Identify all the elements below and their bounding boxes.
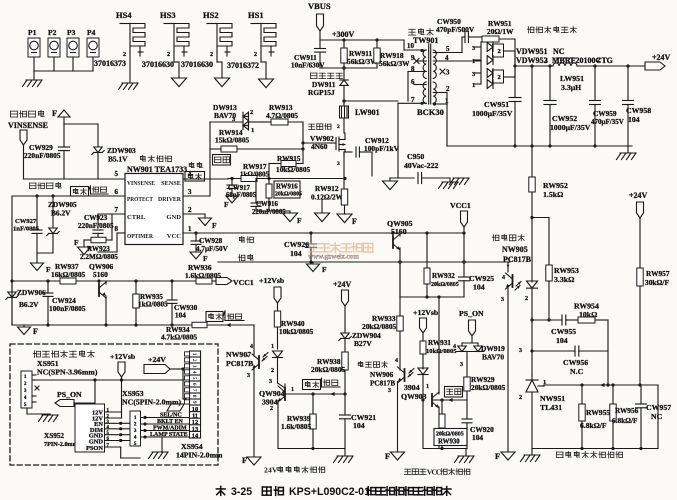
net +24V d (144, 355, 186, 399)
svg-text:5: 5 (115, 170, 119, 178)
capacitor CW912 (344, 136, 400, 168)
svg-text:HS4: HS4 (116, 10, 132, 20)
ground CW928 (190, 252, 208, 263)
capacitor CW927 (13, 194, 42, 253)
capacitor CW911 (291, 40, 326, 70)
wire pin8 (98, 233, 125, 252)
svg-text:1000μF/35V: 1000μF/35V (550, 123, 591, 132)
wire pin5 (24, 178, 126, 180)
ground HS3 (172, 78, 187, 87)
label mains sample 2 (30, 182, 62, 189)
capacitor CW930 (167, 281, 198, 325)
label NC slash (167, 404, 184, 411)
svg-text:NW906: NW906 (370, 371, 394, 379)
svg-text:2.2MΩ/0805: 2.2MΩ/0805 (80, 253, 118, 261)
svg-text:5: 5 (446, 45, 450, 53)
ground chassis XS954 (149, 437, 169, 459)
capacitor CW959 (590, 66, 624, 146)
svg-text:CW958: CW958 (626, 106, 651, 115)
svg-text:CW917: CW917 (228, 185, 251, 192)
wire snubber bus (320, 66, 377, 69)
svg-text:37016372: 37016372 (227, 61, 259, 70)
svg-text:1: 1 (545, 57, 548, 64)
svg-text:NC(SPN-3.96mm): NC(SPN-3.96mm) (37, 368, 98, 377)
svg-text:3.3μH: 3.3μH (561, 83, 581, 92)
svg-text:PC817B: PC817B (503, 255, 532, 264)
svg-text:2: 2 (250, 109, 253, 116)
svg-text:VDW951: VDW951 (516, 47, 548, 56)
svg-text:0.12Ω/2W: 0.12Ω/2W (311, 193, 344, 202)
svg-text:VCC1: VCC1 (233, 278, 254, 287)
label supply (239, 236, 253, 243)
svg-text:V: V (272, 466, 278, 475)
wire sb bus (36, 378, 186, 381)
svg-text:KPS+L090C2-01: KPS+L090C2-01 (289, 486, 370, 498)
resistor RW934 (161, 322, 207, 341)
ground chassis secondary (617, 146, 637, 160)
svg-text:CW956: CW956 (563, 358, 588, 367)
label protect2 (206, 311, 225, 322)
ground chassis P1 (23, 80, 43, 87)
svg-text:8: 8 (191, 395, 197, 398)
svg-text:1: 1 (188, 225, 192, 233)
resistor RW954 (574, 302, 608, 386)
svg-text:37016630: 37016630 (181, 60, 213, 69)
ground chassis mid (450, 178, 470, 185)
svg-text:4.7kΩ/0805: 4.7kΩ/0805 (161, 333, 197, 342)
connector P1 (28, 28, 40, 71)
svg-text:4: 4 (250, 344, 253, 350)
wire aux (344, 100, 398, 102)
pin 1 (188, 225, 192, 233)
svg-text:2: 2 (498, 74, 501, 81)
pin 3 (188, 188, 192, 196)
svg-text:3: 3 (446, 69, 450, 77)
svg-text:OPTIMER: OPTIMER (127, 233, 153, 240)
svg-text:+24V: +24V (333, 280, 352, 289)
capacitor CW956 (563, 346, 608, 376)
svg-text:CW955: CW955 (551, 327, 576, 336)
wire VW902 source (337, 152, 344, 188)
svg-text:RW953: RW953 (554, 266, 579, 275)
svg-text:F: F (352, 217, 357, 226)
svg-text:6.8kΩ/F: 6.8kΩ/F (580, 421, 607, 430)
svg-text:VDW952: VDW952 (516, 56, 548, 65)
svg-text:F: F (385, 451, 390, 461)
svg-text:2: 2 (167, 52, 170, 58)
wire HS4 down (129, 52, 131, 82)
svg-text:PSON: PSON (86, 445, 103, 452)
connector XS953 sym (130, 411, 141, 447)
svg-text:2: 2 (107, 415, 110, 420)
label 37016630 b (181, 60, 213, 69)
svg-text:37016630: 37016630 (142, 60, 174, 69)
label protect pin4 (185, 172, 205, 182)
capacitor CW950 (436, 17, 482, 43)
label BKLT EN (157, 419, 184, 425)
svg-text:RW916: RW916 (276, 184, 298, 191)
wire dw919 down (460, 358, 467, 377)
pin 4 (188, 170, 192, 178)
capacitor CW923 (78, 214, 114, 237)
svg-text:8: 8 (115, 225, 119, 233)
label SEL NC (160, 413, 182, 419)
ground chassis XS951 (27, 414, 58, 422)
diode VDW951 b (472, 44, 515, 65)
svg-text:5: 5 (107, 431, 110, 436)
svg-text:1: 1 (191, 353, 197, 356)
svg-text:220nF/0805: 220nF/0805 (252, 209, 286, 216)
svg-text:VCC1: VCC1 (450, 201, 471, 210)
connector P4 (87, 28, 99, 71)
wire +300V rail (320, 30, 404, 42)
svg-text:470pF/500V: 470pF/500V (436, 25, 475, 34)
svg-text:C950: C950 (407, 152, 424, 161)
ground regulation (307, 262, 328, 274)
svg-text:+12Vsb: +12Vsb (259, 276, 285, 285)
resistor RW951 (482, 19, 515, 66)
svg-text:F: F (224, 200, 229, 209)
svg-text:www.gzweix.com: www.gzweix.com (308, 253, 359, 261)
optocoupler NW906 (370, 357, 428, 452)
capacitor CW958 (623, 66, 652, 146)
svg-text:3-25: 3-25 (231, 486, 252, 498)
svg-text:104: 104 (472, 433, 483, 442)
label VDW952 (516, 56, 613, 65)
resistor RW956 (610, 385, 639, 449)
transformer pin 9 (411, 54, 426, 64)
heatsink HS3 (160, 10, 189, 58)
svg-text:4: 4 (453, 344, 456, 350)
pin 5 (115, 170, 119, 178)
svg-text:1nF/0805: 1nF/0805 (13, 226, 40, 233)
svg-text:RW930: RW930 (438, 439, 460, 446)
svg-text:1.6k/0805: 1.6k/0805 (281, 422, 311, 431)
resistor RW916 (266, 179, 302, 212)
svg-text:1: 1 (426, 384, 429, 390)
pin 6 (115, 188, 119, 196)
capacitor CW952 (544, 66, 591, 146)
svg-text:104: 104 (353, 421, 365, 430)
svg-text:2: 2 (446, 85, 450, 93)
svg-text:LW901: LW901 (355, 108, 380, 117)
label normal2 (225, 311, 244, 321)
transistor VW902 switch (308, 124, 345, 152)
ground F protect (18, 325, 39, 336)
capacitor CW951 (472, 66, 521, 146)
svg-text:VCC: VCC (167, 233, 182, 240)
label output connector (33, 350, 94, 357)
wire regulation bus (218, 260, 510, 263)
svg-text:PROTECT: PROTECT (127, 196, 153, 203)
label VDW951 (516, 47, 565, 56)
svg-text:PS_ON: PS_ON (459, 309, 484, 318)
svg-text:104: 104 (473, 283, 485, 292)
label protect3 (303, 380, 321, 390)
ground F NW906 (385, 451, 405, 461)
svg-text:30kΩ/F: 30kΩ/F (645, 278, 669, 287)
svg-text:3: 3 (472, 45, 476, 52)
resistor RW932 (424, 233, 459, 297)
wire HS1 down (261, 52, 266, 79)
label overcurrent (189, 162, 202, 167)
svg-text:3: 3 (107, 420, 110, 425)
ground chassis C950 (439, 178, 459, 189)
net +24V c (629, 191, 648, 268)
pin 2 (188, 206, 192, 214)
svg-text:NC(5PIN-2.0mm): NC(5PIN-2.0mm) (122, 398, 182, 407)
capacitor CW921 (340, 392, 377, 448)
svg-text:LW951: LW951 (560, 74, 584, 83)
ground C950 left (383, 178, 398, 190)
heatsink HS4 (116, 10, 145, 58)
svg-text:CW927: CW927 (15, 218, 37, 225)
diode VDW952 a (472, 61, 493, 84)
svg-text:+24V: +24V (652, 53, 671, 62)
inductor LW951 (545, 57, 600, 92)
diode DW913 (213, 103, 262, 134)
wire sense row (228, 177, 347, 180)
wire pin2 gnd (183, 214, 205, 218)
svg-text:BKLT EN: BKLT EN (157, 419, 184, 425)
resistor RW953 (530, 216, 579, 320)
svg-text:3.3kΩ: 3.3kΩ (554, 275, 574, 284)
net PS_ON b (459, 309, 484, 343)
wire CW912 gnd (371, 168, 373, 176)
label VCC control circuit (404, 468, 470, 477)
svg-text:+12Vsb: +12Vsb (110, 352, 136, 361)
svg-text:14PIN-2.0mm: 14PIN-2.0mm (176, 451, 223, 460)
svg-text:CW923: CW923 (84, 214, 108, 222)
wire left drive (209, 122, 211, 196)
transformer pin 1 (433, 97, 449, 146)
svg-text:F: F (242, 455, 247, 465)
svg-text:CW959: CW959 (593, 109, 617, 118)
resistor RW931 (420, 339, 457, 357)
ground chassis samp (521, 449, 541, 462)
svg-text:20kΩ/0805: 20kΩ/0805 (431, 282, 459, 288)
svg-text:SENSE: SENSE (161, 180, 182, 187)
svg-text:+24V: +24V (148, 355, 166, 364)
svg-text:3: 3 (460, 362, 463, 368)
svg-text:4: 4 (191, 371, 197, 374)
svg-text:104: 104 (556, 336, 568, 345)
svg-text:F: F (212, 221, 217, 230)
svg-text:+300V: +300V (332, 30, 355, 39)
resistor RW913 (262, 103, 303, 125)
wire lamp rows (141, 416, 190, 439)
svg-text:20kΩ/0805: 20kΩ/0805 (275, 192, 302, 198)
resistor RW933 (362, 262, 403, 366)
wire HS2 down (217, 52, 222, 78)
label normal (91, 186, 109, 194)
optocoupler NW907 (226, 344, 283, 457)
transformer pin 3 (440, 69, 450, 77)
transformer pin 2 (433, 85, 450, 104)
zener ZDW904 (339, 331, 381, 352)
wire pin7 (98, 214, 125, 228)
label sampling circuit (557, 451, 623, 458)
svg-text:15kΩ/0805: 15kΩ/0805 (215, 136, 250, 145)
svg-text:LAMP STATE: LAMP STATE (150, 432, 188, 438)
svg-text:BCK30: BCK30 (417, 107, 444, 117)
svg-text:1: 1 (472, 58, 475, 65)
svg-text:5160: 5160 (93, 270, 108, 279)
svg-text:2: 2 (519, 395, 522, 401)
ground chassis ovp (334, 449, 354, 463)
svg-text:NC: NC (553, 47, 565, 56)
wire ovp bottom (278, 447, 345, 450)
net VCC1 b (450, 201, 471, 233)
svg-text:PC817B: PC817B (226, 359, 253, 368)
zener ZDW906 (6, 281, 46, 325)
transformer pin 4 (433, 54, 481, 62)
svg-text:220nF/0805: 220nF/0805 (24, 151, 61, 160)
resistor RW923 (80, 214, 118, 261)
svg-text:10kΩ/0805: 10kΩ/0805 (279, 327, 314, 336)
svg-text:100nF/0805: 100nF/0805 (49, 304, 86, 313)
wire samp bottom (532, 447, 658, 450)
transistor QW903 (401, 297, 467, 449)
zener ZDW903 (92, 146, 136, 179)
svg-text:NC: NC (651, 412, 663, 421)
diode DW911 spike absorber (308, 68, 348, 101)
resistor RW938 (311, 352, 348, 394)
wire signal rows (105, 380, 141, 458)
svg-text:RW952: RW952 (543, 181, 568, 190)
svg-text:F: F (495, 451, 500, 461)
transformer pin 6 (411, 78, 426, 86)
svg-text:2: 2 (210, 52, 213, 58)
pin 7 (115, 206, 119, 214)
svg-text:2: 2 (188, 206, 192, 214)
wire F bus (64, 124, 98, 147)
svg-text:3: 3 (519, 348, 522, 354)
svg-text:1: 1 (291, 387, 294, 393)
capacitor CW955 (551, 315, 578, 345)
svg-text:220nF/0805: 220nF/0805 (78, 222, 114, 230)
transformer pin 5 (433, 37, 462, 53)
svg-text:7: 7 (191, 389, 197, 392)
svg-text:3: 3 (501, 297, 504, 303)
svg-text:3: 3 (337, 161, 340, 167)
capacitor CW926 (284, 233, 317, 262)
ground F NW907 (242, 455, 261, 465)
capacitor CW924 (43, 279, 86, 325)
svg-text:3: 3 (247, 373, 250, 379)
svg-text:40Vac-222: 40Vac-222 (404, 161, 438, 170)
transformer pin 8 (408, 65, 426, 101)
wire gate right (302, 122, 304, 163)
resistor RW930 (434, 400, 467, 449)
label rectifier filter (527, 26, 576, 33)
label normal3 (322, 378, 341, 387)
wire pin4 sense (183, 178, 228, 180)
diode DW919 (453, 343, 505, 362)
ground F zdw905 (31, 263, 52, 274)
op-amp U NW901 (125, 165, 187, 245)
svg-text:6: 6 (115, 188, 119, 196)
capacitor CW925 (459, 233, 495, 297)
wire HS3 down (174, 52, 179, 78)
svg-text:ZDW906: ZDW906 (17, 288, 46, 297)
label XS954 (176, 442, 223, 460)
svg-text:VINSENSE: VINSENSE (8, 121, 48, 130)
wire 24V rail (513, 64, 553, 67)
inductor LW901 (337, 99, 380, 133)
svg-text:P4: P4 (87, 28, 96, 37)
transformer pin 10 (404, 40, 426, 52)
capacitor CW917 (226, 179, 257, 200)
svg-text:CW957: CW957 (646, 403, 671, 412)
svg-text:B5.1V: B5.1V (108, 155, 128, 164)
svg-text:RW957: RW957 (646, 269, 670, 278)
svg-text:+24V: +24V (629, 191, 648, 200)
resistor RW911 (341, 40, 378, 68)
resistor RW935 (133, 281, 168, 325)
optocoupler NW905 (492, 192, 537, 452)
transistor QW904 (259, 379, 345, 449)
svg-text:P2: P2 (48, 28, 57, 37)
svg-text:VBUS: VBUS (308, 1, 331, 11)
svg-text:37016373: 37016373 (94, 59, 126, 68)
label 37016630 a (142, 60, 174, 69)
connector P2 (48, 28, 60, 71)
svg-text:2: 2 (525, 296, 528, 302)
transistor NW951 TL431 (519, 348, 565, 449)
svg-text:2: 2 (191, 359, 197, 362)
ground pin2 (199, 218, 218, 230)
resistor RW917 (240, 162, 269, 179)
wire pin3 driver (183, 195, 210, 197)
ground chassis vcc ctl (455, 449, 475, 463)
svg-text:20kΩ/0805: 20kΩ/0805 (311, 365, 346, 374)
svg-text:2: 2 (337, 124, 340, 130)
svg-text:NW907: NW907 (226, 350, 251, 359)
svg-text:10: 10 (407, 42, 415, 50)
svg-text:4: 4 (395, 358, 398, 364)
ground gate mid (315, 200, 330, 222)
resistor RW939 (281, 394, 316, 449)
svg-text:2: 2 (270, 406, 273, 412)
svg-text:104: 104 (290, 249, 302, 258)
svg-text:4: 4 (502, 275, 505, 281)
svg-text:1: 1 (251, 127, 254, 134)
net PS_ON a (55, 380, 95, 407)
svg-text:TW901: TW901 (413, 36, 438, 45)
label switch2 (445, 387, 463, 398)
capacitor CW928 (191, 233, 229, 253)
svg-text:7: 7 (107, 444, 110, 449)
svg-text:RGP15J: RGP15J (308, 88, 335, 97)
svg-text:HS2: HS2 (203, 10, 219, 20)
wire vcc ctl bottom (423, 447, 467, 450)
svg-text:B27V: B27V (354, 339, 372, 348)
svg-text:XS952: XS952 (44, 432, 64, 440)
wire drive top (210, 121, 242, 123)
svg-text:3904: 3904 (404, 383, 420, 392)
wire pin6 protect (12, 196, 125, 325)
connector XS951 (21, 359, 98, 414)
ground CW916 (283, 211, 303, 225)
label BCK30 (417, 107, 444, 117)
svg-text:1.5kΩ: 1.5kΩ (543, 190, 563, 199)
wire 24V rail b (577, 64, 645, 67)
net +12Vsb b (413, 308, 439, 341)
svg-text:20kΩ/0805: 20kΩ/0805 (436, 432, 464, 438)
svg-text:20kΩ/0805: 20kΩ/0805 (471, 383, 506, 392)
svg-text:104: 104 (175, 312, 186, 320)
